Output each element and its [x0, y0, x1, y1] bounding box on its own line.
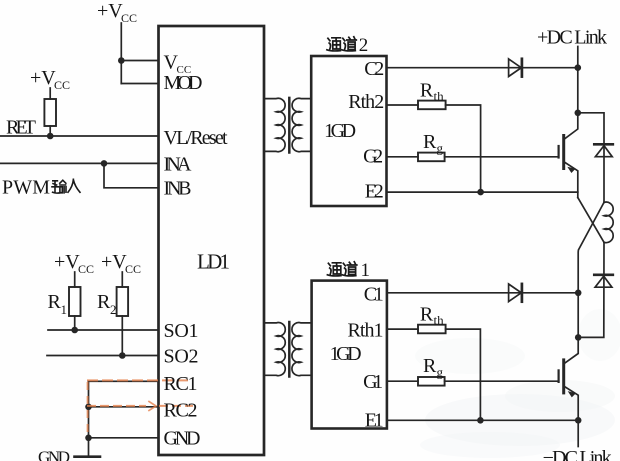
svg-text:g: g [437, 365, 444, 380]
orange annotation dashed vertical [87, 383, 89, 434]
wire G1 [387, 380, 559, 382]
junction dot [101, 160, 108, 167]
svg-text:SO2: SO2 [164, 346, 199, 368]
transformer T1 secondary [292, 323, 312, 376]
resistor R1 [69, 287, 81, 316]
wire -DC bus [577, 420, 579, 446]
svg-text:Rth1: Rth1 [348, 320, 384, 342]
pin Vcc [164, 52, 192, 77]
svg-text:th: th [434, 313, 445, 328]
junction dot [477, 189, 484, 196]
svg-text:+V: +V [97, 0, 123, 22]
wire VCC pin [121, 60, 158, 62]
svg-text:C1: C1 [364, 284, 384, 306]
orange annotation dashed RC1 [88, 379, 192, 381]
junction dot [71, 327, 78, 334]
svg-text:MOD: MOD [164, 72, 203, 94]
svg-text:Rth2: Rth2 [348, 91, 384, 113]
wire stub [49, 88, 51, 99]
svg-text:th: th [434, 89, 445, 104]
wire GND pin [89, 437, 159, 439]
svg-text:R: R [423, 131, 437, 153]
resistor RET pullup [44, 99, 56, 126]
transistor Q1 bar [562, 360, 565, 393]
svg-text:+V: +V [54, 251, 80, 273]
wire MOD pin [121, 83, 158, 85]
svg-text:−DC Link: −DC Link [543, 447, 612, 461]
svg-text:+V: +V [101, 251, 127, 273]
label channel1 (tongdao1) [327, 262, 356, 276]
ground [75, 455, 101, 458]
svg-text:g: g [437, 141, 444, 156]
svg-text:PWM: PWM [2, 177, 50, 199]
wire Rth1 [387, 329, 481, 420]
svg-text:1GD: 1GD [324, 120, 356, 142]
transistor Q1 IGBT collector [565, 293, 578, 363]
resistor Rth1 [418, 325, 446, 334]
wire E2 [387, 191, 578, 193]
IC U1 LD1 block [159, 26, 265, 455]
emitter arrow [567, 167, 575, 173]
wire [49, 126, 51, 136]
transistor Q2 IGBT collector [565, 113, 578, 139]
svg-text:1: 1 [361, 260, 371, 281]
transformer T1 primary [264, 323, 285, 376]
scan smudges [415, 309, 620, 458]
svg-text:GND: GND [164, 428, 201, 450]
wire phase X upper [578, 198, 604, 243]
svg-text:R: R [420, 304, 434, 326]
load inductor [604, 202, 613, 243]
wire [74, 316, 76, 330]
wire to freewheel diode D1 [578, 242, 604, 337]
node +Vcc RET [30, 67, 70, 92]
junction dot [119, 352, 126, 359]
transistor Q1 gate plate [557, 370, 559, 382]
wire vertical RC1/RC2/GND [88, 381, 90, 456]
transformer T2 secondary [292, 98, 311, 151]
diode D2 freewheel [594, 143, 613, 146]
label PWM input (shuru) [52, 179, 80, 193]
emitter arrow [568, 391, 576, 397]
gate-drive module 1GD channel1 [312, 281, 387, 429]
svg-text:INB: INB [164, 178, 192, 200]
transformer T2 primary [264, 98, 285, 151]
svg-text:C2: C2 [364, 58, 384, 80]
svg-text:E1: E1 [365, 410, 384, 432]
wire E1 [387, 419, 578, 421]
diode D2s [509, 59, 522, 77]
svg-text:R: R [423, 355, 437, 377]
label channel2 (tongdao2) [327, 37, 356, 51]
wire C2 [387, 67, 578, 69]
wire [121, 272, 123, 287]
svg-text:G2: G2 [363, 146, 383, 168]
junction dot [118, 57, 125, 64]
wire phase X lower [578, 202, 604, 292]
wire G2 [387, 156, 559, 158]
wire RC2 [89, 406, 159, 408]
transistor Q2 gate plate [557, 146, 559, 158]
wire +Vcc to VCC pin [120, 23, 122, 84]
transformer T2 core [288, 98, 291, 153]
svg-text:INA: INA [164, 154, 193, 176]
wire INA [0, 162, 159, 164]
svg-text:CC: CC [121, 11, 137, 25]
svg-text:2: 2 [359, 35, 369, 56]
svg-text:GND: GND [38, 448, 70, 461]
junction dot [477, 417, 484, 424]
junction dot [575, 334, 582, 341]
transistor Q1 emitter [565, 387, 578, 420]
node +Vcc R2 [101, 251, 141, 276]
resistor Rg2 [418, 153, 445, 162]
node +Vcc R1 [54, 251, 94, 276]
diode D1s [509, 284, 522, 302]
svg-text:2: 2 [110, 302, 117, 317]
junction dot [575, 64, 582, 71]
svg-text:R: R [48, 291, 62, 313]
svg-text:G1: G1 [363, 371, 383, 393]
junction dot node A [575, 110, 582, 117]
svg-text:+DC Link: +DC Link [537, 27, 607, 49]
diode D1 freewheel [594, 273, 613, 276]
junction dot [85, 404, 92, 411]
junction dot [47, 133, 54, 140]
svg-text:E2: E2 [365, 181, 384, 203]
wire SO1 [48, 329, 159, 331]
wire C1 [387, 292, 578, 294]
orange annotation dashed RC2 [88, 405, 192, 407]
svg-text:CC: CC [125, 262, 141, 276]
resistor Rth2 [418, 101, 446, 110]
transistor Q2 bar [562, 136, 565, 169]
wire INB [104, 163, 159, 187]
svg-text:R: R [97, 291, 111, 313]
junction dot [575, 417, 582, 424]
junction dot node B [575, 290, 582, 297]
wire [74, 272, 76, 287]
wire VL/Reset [0, 135, 159, 137]
svg-text:R: R [420, 80, 434, 102]
svg-text:+V: +V [30, 67, 56, 89]
svg-text:SO1: SO1 [164, 320, 199, 342]
wire SO2 [47, 355, 159, 357]
wire +DC bus [577, 47, 579, 113]
resistor R2 [117, 287, 129, 316]
resistor Rg1 [418, 377, 445, 386]
svg-text:1: 1 [61, 302, 68, 317]
wire [121, 316, 123, 356]
svg-text:RC2: RC2 [164, 400, 198, 422]
svg-text:RC1: RC1 [164, 373, 198, 395]
svg-text:CC: CC [54, 78, 70, 92]
node +Vcc top [97, 0, 137, 25]
gate-drive module 1GD channel2 [311, 56, 386, 206]
transistor Q2 emitter [565, 163, 578, 198]
svg-text:VL/Reset: VL/Reset [164, 127, 228, 149]
wire to freewheel diode D2 [578, 113, 604, 203]
orange annotation arrow [149, 402, 156, 411]
junction dot [85, 435, 92, 442]
wire RC1 [89, 380, 159, 382]
transformer T1 core [288, 322, 291, 377]
svg-text:1GD: 1GD [330, 343, 362, 365]
wire Rth2 [387, 105, 481, 192]
svg-text:CC: CC [78, 262, 94, 276]
svg-text:LD1: LD1 [197, 250, 230, 274]
